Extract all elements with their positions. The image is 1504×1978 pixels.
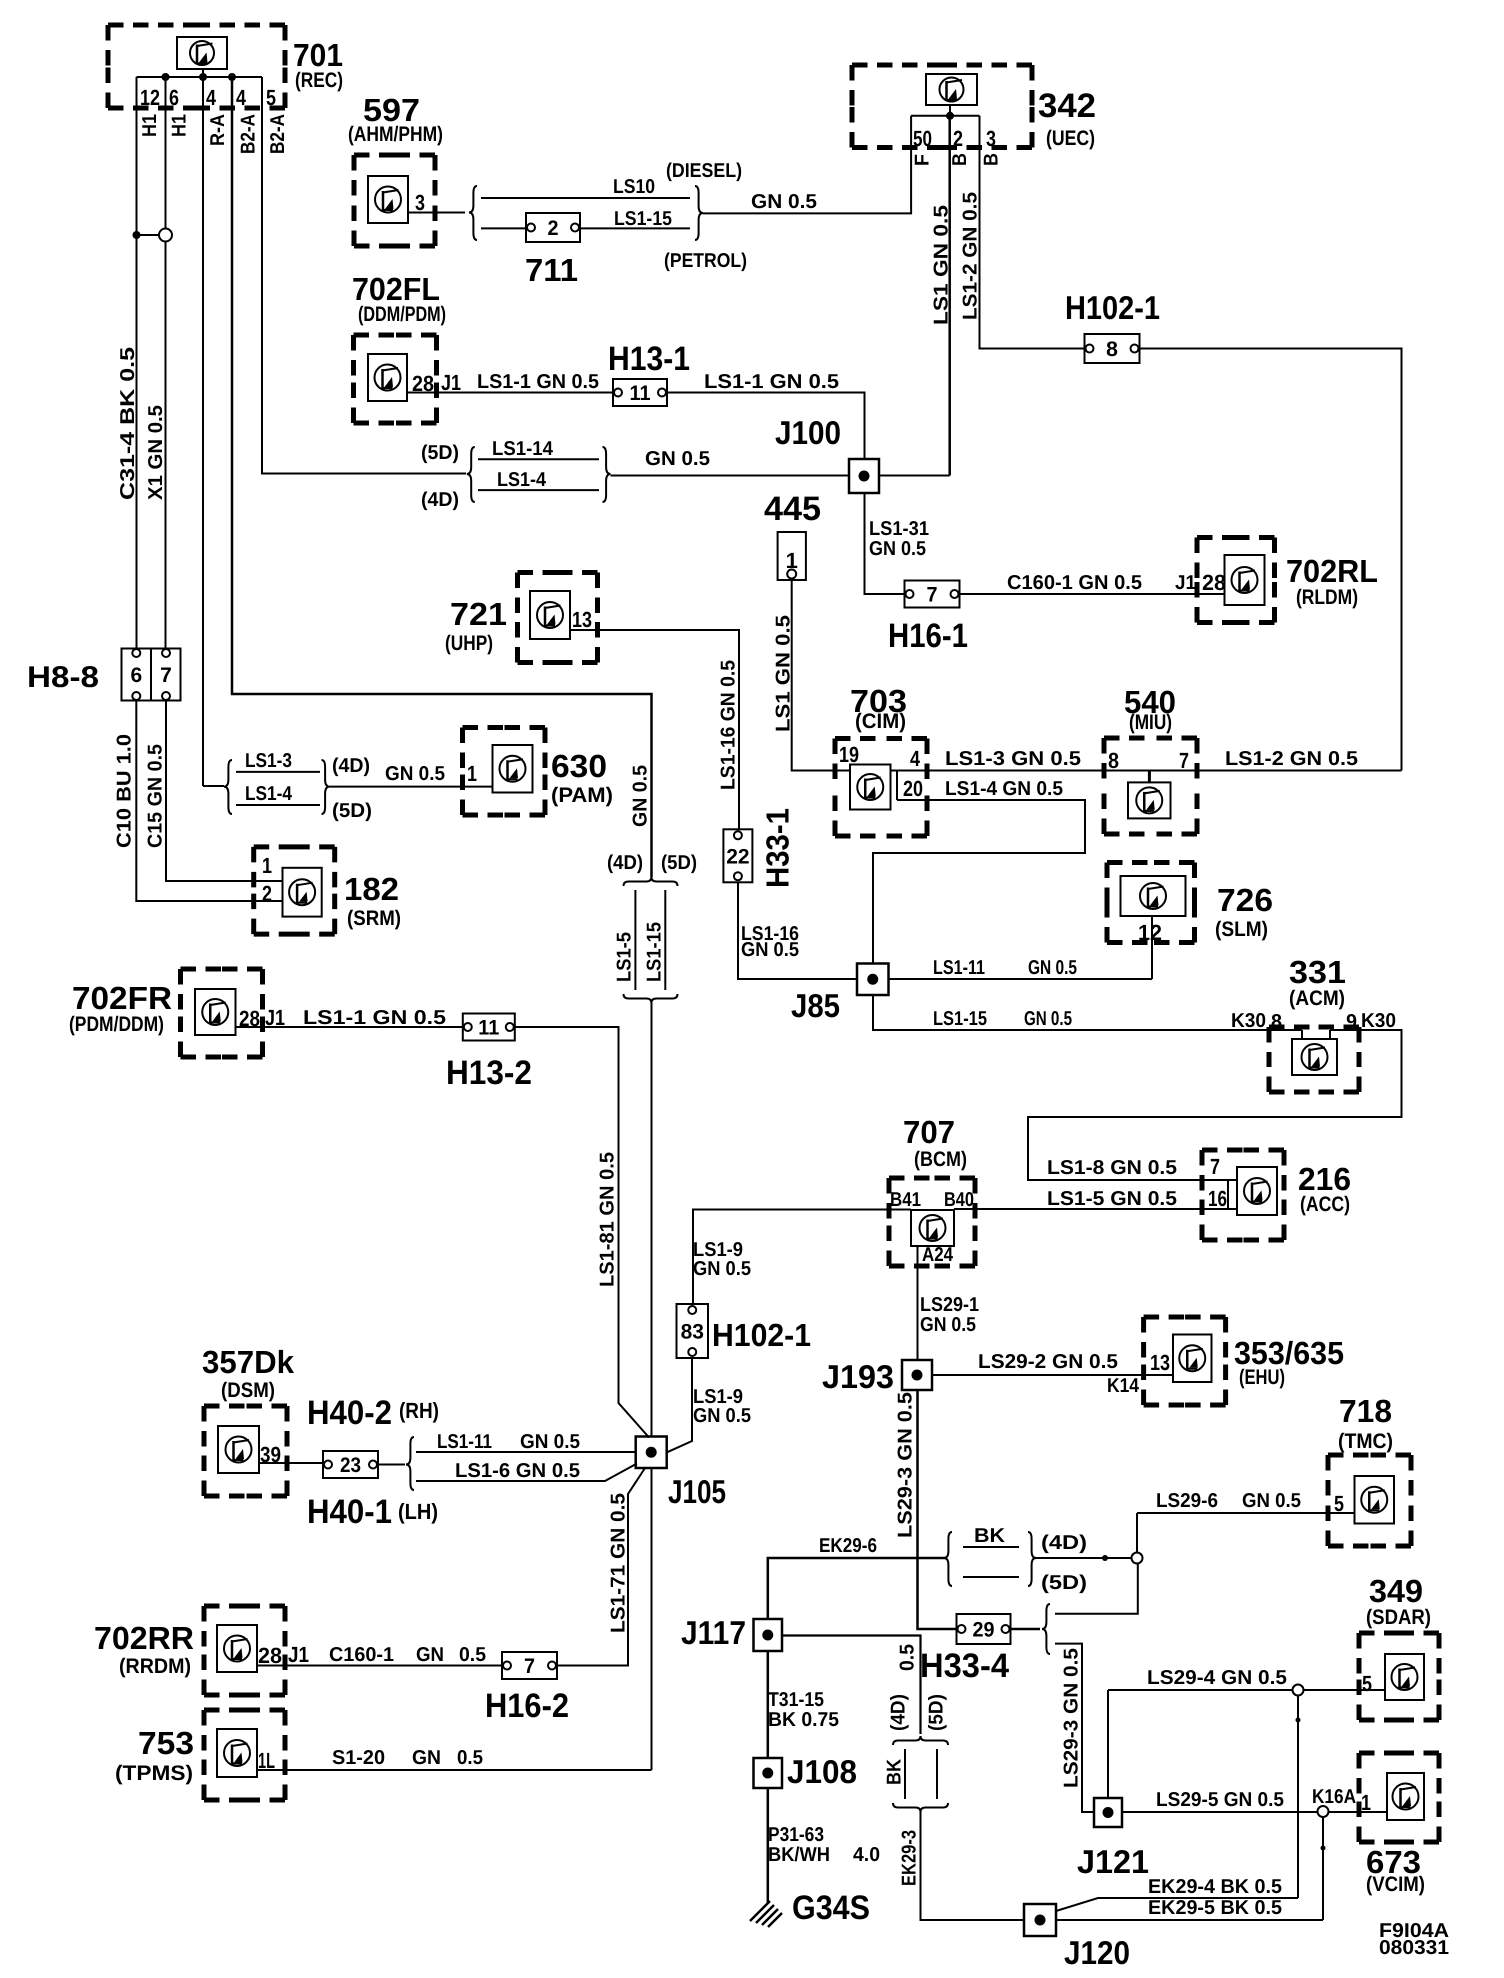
wire LS1-14 xyxy=(478,458,599,460)
pin 9 (ACM) xyxy=(1346,1011,1357,1033)
wire LS1-3 xyxy=(897,770,1104,772)
label H16-2 xyxy=(485,1687,569,1725)
pin 50 xyxy=(913,126,932,151)
svg-text:LS1-4: LS1-4 xyxy=(497,469,547,491)
brace BK right xyxy=(1028,1532,1036,1586)
label (SRM) xyxy=(347,907,401,930)
pin 28 (702FR) xyxy=(239,1006,260,1031)
svg-text:GN 0.5: GN 0.5 xyxy=(385,763,445,785)
pin 2 xyxy=(262,881,272,906)
label LS1-81 GN 0.5 xyxy=(597,1152,619,1287)
svg-text:EK29-6: EK29-6 xyxy=(819,1535,877,1557)
svg-text:H13-2: H13-2 xyxy=(446,1054,532,1092)
label 0.5 vert h334 xyxy=(897,1644,919,1671)
svg-text:(5D): (5D) xyxy=(1041,1572,1087,1594)
label (ACM) xyxy=(1289,987,1345,1010)
wire B41 xyxy=(693,1210,911,1305)
svg-text:K30: K30 xyxy=(1231,1010,1266,1032)
wire GN to 342 pin50 xyxy=(703,116,911,214)
svg-text:F: F xyxy=(912,154,934,166)
label BK/WH xyxy=(768,1844,830,1866)
svg-text:LS1-6 GN 0.5: LS1-6 GN 0.5 xyxy=(455,1460,580,1482)
wire brace to J100 xyxy=(611,475,850,477)
svg-text:C15 GN 0.5: C15 GN 0.5 xyxy=(145,744,167,848)
wire 342 inner stub xyxy=(949,106,951,116)
label J121 xyxy=(1077,1843,1149,1880)
label (5D) 651 xyxy=(661,852,697,874)
pin 13 xyxy=(572,607,592,632)
svg-text:702FL: 702FL xyxy=(352,271,440,307)
wire P31-63 xyxy=(767,1788,770,1903)
wire LS1-15 b xyxy=(580,227,690,229)
svg-text:GN 0.5: GN 0.5 xyxy=(920,1314,976,1336)
svg-text:K14: K14 xyxy=(1107,1375,1140,1397)
svg-text:GN 0.5: GN 0.5 xyxy=(751,191,817,213)
svg-text:LS1 GN 0.5: LS1 GN 0.5 xyxy=(773,615,795,732)
component 707 symbol xyxy=(911,1210,954,1246)
label LS1-2 GN 0.5 xyxy=(960,192,982,320)
svg-text:LS1-5 GN 0.5: LS1-5 GN 0.5 xyxy=(1047,1188,1177,1210)
label LS1-8 GN 0.5 xyxy=(1047,1157,1177,1179)
svg-text:H8-8: H8-8 xyxy=(27,661,99,694)
label B pin2 xyxy=(949,153,971,166)
label (4D) bk xyxy=(1041,1532,1087,1554)
svg-text:080331: 080331 xyxy=(1379,1937,1449,1959)
svg-text:445: 445 xyxy=(764,490,821,528)
svg-text:4: 4 xyxy=(910,746,921,771)
svg-text:B41: B41 xyxy=(890,1189,921,1211)
label B2-A pin4 xyxy=(237,114,259,154)
svg-text:(AHM/PHM): (AHM/PHM) xyxy=(348,123,443,146)
brace 630 left xyxy=(224,760,232,814)
brace LS1-14 right xyxy=(603,447,611,502)
label EK29-5 BK 0.5 xyxy=(1148,1897,1282,1919)
svg-text:LS1-71 GN 0.5: LS1-71 GN 0.5 xyxy=(608,1493,630,1633)
wire LS1-81 xyxy=(515,1027,649,1438)
pin 39 xyxy=(260,1442,281,1467)
svg-text:0.5: 0.5 xyxy=(459,1644,486,1666)
svg-text:28: 28 xyxy=(258,1643,282,1668)
brace diesel-petrol left xyxy=(469,186,477,240)
component 721 symbol xyxy=(530,591,570,639)
label 630 xyxy=(551,748,607,784)
label LS1-16 xyxy=(741,923,799,945)
svg-text:LS1-1 GN 0.5: LS1-1 GN 0.5 xyxy=(477,371,599,393)
svg-text:1: 1 xyxy=(467,761,477,786)
svg-text:726: 726 xyxy=(1217,882,1273,918)
label (VCIM) xyxy=(1366,1873,1425,1896)
svg-text:GN 0.5: GN 0.5 xyxy=(693,1258,751,1280)
label LS29-1 xyxy=(920,1294,979,1316)
label LS1-4 (630) xyxy=(245,783,293,805)
component 702RL symbol xyxy=(1225,555,1265,605)
component 702RL (RLDM) box xyxy=(1197,538,1275,623)
label H33-1 xyxy=(760,808,796,888)
svg-text:BK: BK xyxy=(974,1525,1006,1547)
svg-text:LS10: LS10 xyxy=(613,176,655,198)
svg-text:(5D): (5D) xyxy=(421,442,459,464)
pin 3 xyxy=(986,126,996,151)
svg-text:B: B xyxy=(949,153,971,166)
svg-text:BK: BK xyxy=(884,1759,906,1785)
svg-text:6: 6 xyxy=(130,664,142,687)
label H33-4 xyxy=(920,1647,1009,1685)
label H16-1 xyxy=(888,617,968,655)
svg-text:LS1-2 GN 0.5: LS1-2 GN 0.5 xyxy=(960,192,982,320)
wire C160-1 (RR) xyxy=(257,1665,502,1667)
svg-text:702FR: 702FR xyxy=(72,980,172,1016)
wire 216 pin16 stub xyxy=(1228,1180,1238,1209)
brace split bottom xyxy=(624,994,678,1003)
wire H102-1 to J105 xyxy=(667,1358,692,1452)
svg-text:(LH): (LH) xyxy=(398,1499,438,1524)
wire EK29-4 riser xyxy=(1297,1696,1299,1899)
brace LS1-14 left xyxy=(467,447,475,502)
svg-text:LS29-5 GN 0.5: LS29-5 GN 0.5 xyxy=(1156,1789,1284,1811)
label (4D) vert xyxy=(888,1694,910,1731)
svg-text:(BCM): (BCM) xyxy=(914,1148,967,1171)
svg-text:(VCIM): (VCIM) xyxy=(1366,1873,1425,1896)
label (DIESEL) xyxy=(666,160,742,182)
svg-text:331: 331 xyxy=(1289,954,1346,990)
svg-text:J117: J117 xyxy=(681,1614,746,1651)
label 702RR xyxy=(94,1620,194,1656)
svg-text:LS1-15: LS1-15 xyxy=(614,208,672,230)
svg-text:(CIM): (CIM) xyxy=(855,710,906,733)
wire 726 pin12 riser xyxy=(1151,916,1153,979)
component 701 (REC) box xyxy=(108,25,285,108)
label (DSM) xyxy=(221,1379,275,1402)
component 349 (SDAR) box xyxy=(1359,1633,1439,1720)
component 331 symbol xyxy=(1292,1039,1337,1075)
wire T31-15 xyxy=(767,1651,770,1758)
component 702RR (RRDM) box xyxy=(204,1606,285,1695)
svg-text:216: 216 xyxy=(1298,1161,1351,1197)
pin 13 (EHU) xyxy=(1150,1350,1170,1375)
wire LS1-11 xyxy=(889,978,1152,980)
label GN 0.5 (296) xyxy=(1242,1490,1301,1512)
connector H13-1 xyxy=(613,379,667,406)
pin 8 xyxy=(1108,748,1119,773)
connector H102-1 mid xyxy=(677,1304,709,1358)
svg-text:12: 12 xyxy=(1138,920,1162,945)
wire GN to 630 xyxy=(330,786,493,788)
label LS1-11 xyxy=(933,957,985,979)
wire LS1-4 xyxy=(478,489,599,491)
component 349 symbol xyxy=(1385,1654,1424,1700)
label (TPMS) xyxy=(115,1762,193,1785)
label (BCM) xyxy=(914,1148,967,1171)
svg-text:LS1-3: LS1-3 xyxy=(245,750,292,772)
label (SLM) xyxy=(1215,918,1268,941)
label F9I04A xyxy=(1379,1920,1449,1942)
svg-text:LS1-2 GN 0.5: LS1-2 GN 0.5 xyxy=(1225,748,1358,770)
label (AHM/PHM) xyxy=(348,123,443,146)
node splice dot xyxy=(133,231,141,239)
label 707 xyxy=(903,1114,955,1150)
svg-text:(UEC): (UEC) xyxy=(1046,127,1095,150)
label T31-15 xyxy=(768,1689,824,1711)
component 726 symbol xyxy=(1121,876,1186,916)
wire LS1-2 to right xyxy=(1197,770,1402,772)
label LS1-15 xyxy=(614,208,672,230)
svg-text:19: 19 xyxy=(839,742,859,767)
svg-text:7: 7 xyxy=(1179,748,1189,773)
pin 5 (718) xyxy=(1334,1491,1344,1516)
connector 445 xyxy=(778,532,806,580)
label H102-1 mid xyxy=(712,1317,811,1353)
label GN 0.5 below83 xyxy=(693,1405,751,1427)
label H13-2 xyxy=(446,1054,532,1092)
svg-text:(UHP): (UHP) xyxy=(445,632,493,655)
svg-text:702RL: 702RL xyxy=(1286,553,1378,589)
wire 701 symbol stub xyxy=(202,69,204,77)
component 182 symbol xyxy=(283,868,322,917)
wire LS1-6 xyxy=(416,1464,637,1482)
label LS1-11 (h40) xyxy=(437,1431,492,1453)
wire C15 down xyxy=(166,701,283,882)
label 753 xyxy=(138,1725,194,1761)
component 726 (SLM) box xyxy=(1107,863,1195,943)
svg-text:J85: J85 xyxy=(791,987,840,1024)
svg-text:BK 0.75: BK 0.75 xyxy=(768,1709,839,1731)
svg-text:7: 7 xyxy=(524,1655,535,1678)
wire LS1-1 left xyxy=(407,392,613,394)
label LS1 GN 0.5 xyxy=(931,205,953,325)
brace H33-4 split xyxy=(1042,1604,1050,1654)
label LS1-2 GN 0.5 (wire) xyxy=(1225,748,1358,770)
label 216 xyxy=(1298,1161,1351,1197)
svg-text:753: 753 xyxy=(138,1725,194,1761)
svg-text:K30: K30 xyxy=(1361,1010,1396,1032)
wire BK 4D xyxy=(963,1546,1019,1548)
label 726 xyxy=(1217,882,1273,918)
label GN (RR) xyxy=(416,1644,444,1666)
label GN 0.5 xyxy=(645,448,710,470)
wire J117 right xyxy=(782,1636,921,1735)
junction J100 xyxy=(849,459,879,493)
svg-text:711: 711 xyxy=(525,252,578,288)
wire 23 to brace xyxy=(378,1464,405,1466)
svg-text:GN 0.5: GN 0.5 xyxy=(630,765,652,827)
component 630 symbol xyxy=(493,745,533,793)
component 701 symbol xyxy=(177,37,227,69)
label LS1-6 GN 0.5 xyxy=(455,1460,580,1482)
ground G34S xyxy=(750,1901,782,1927)
wire J100 to 342 xyxy=(879,475,950,477)
svg-text:LS1-14: LS1-14 xyxy=(492,438,554,460)
svg-text:630: 630 xyxy=(551,748,607,784)
pin 19 xyxy=(839,742,859,767)
svg-text:13: 13 xyxy=(572,607,592,632)
svg-text:GN: GN xyxy=(416,1644,444,1666)
junction J120 xyxy=(1024,1904,1056,1936)
svg-text:(RRDM): (RRDM) xyxy=(119,1655,191,1678)
label S1-20 xyxy=(332,1747,385,1769)
pin 7 (216) xyxy=(1210,1154,1220,1179)
label (4D) xyxy=(421,489,459,511)
wire LS29-5 xyxy=(1122,1811,1318,1813)
svg-text:J120: J120 xyxy=(1064,1934,1130,1971)
pin B40 xyxy=(944,1189,974,1211)
label GN 0.5 (h40a) xyxy=(520,1431,580,1453)
component 597 (AHM/PHM) box xyxy=(354,155,435,246)
label (RH) xyxy=(399,1398,439,1423)
wire LS1-15 seg xyxy=(664,890,666,990)
label 718 xyxy=(1339,1393,1392,1429)
component 753 symbol xyxy=(217,1729,257,1777)
svg-text:H13-1: H13-1 xyxy=(608,340,690,378)
svg-text:C10 BU 1.0: C10 BU 1.0 xyxy=(114,734,136,848)
svg-text:X1 GN 0.5: X1 GN 0.5 xyxy=(145,405,167,500)
label F xyxy=(912,154,934,166)
brace diesel-petrol right xyxy=(695,186,703,240)
label EK29-4 BK 0.5 xyxy=(1148,1876,1282,1898)
label (EHU) xyxy=(1239,1366,1285,1389)
component 702FR symbol xyxy=(195,989,236,1035)
label GN 0.5 (291) xyxy=(920,1314,976,1336)
wire LS1-1 right xyxy=(667,393,865,460)
pin 7 xyxy=(1179,748,1189,773)
svg-text:H40-2: H40-2 xyxy=(307,1394,392,1432)
label LS1-9 below xyxy=(693,1386,743,1408)
connector 23 xyxy=(323,1451,378,1478)
component 540 (MIU) box xyxy=(1104,738,1197,834)
wire H1-6 down b xyxy=(165,242,167,649)
svg-text:T31-15: T31-15 xyxy=(768,1689,824,1711)
svg-text:(DIESEL): (DIESEL) xyxy=(666,160,742,182)
svg-text:GN 0.5: GN 0.5 xyxy=(1028,957,1077,979)
pin 12 xyxy=(140,85,160,110)
wire B2-A-4 down xyxy=(232,77,652,877)
component 182 (SRM) box xyxy=(254,847,335,934)
wire 701 pin bus xyxy=(137,76,263,78)
svg-text:BK/WH: BK/WH xyxy=(768,1844,830,1866)
wire LS1-4 (630) xyxy=(236,804,320,806)
label (5D) bk xyxy=(1041,1572,1087,1594)
wire H33-4 out xyxy=(1011,1628,1041,1631)
junction J193 xyxy=(902,1360,932,1390)
label LS1-1 GN 0.5 right xyxy=(704,371,839,393)
svg-text:0.5: 0.5 xyxy=(897,1644,919,1671)
label B pin3 xyxy=(981,153,1003,166)
svg-text:16: 16 xyxy=(1208,1186,1227,1211)
component 702RR symbol xyxy=(217,1625,257,1672)
svg-text:2: 2 xyxy=(548,217,559,240)
svg-text:8: 8 xyxy=(1106,338,1118,361)
component 540 symbol xyxy=(1128,782,1171,818)
label (UHP) xyxy=(445,632,493,655)
label (PETROL) xyxy=(664,250,747,272)
svg-text:J193: J193 xyxy=(822,1358,894,1395)
wire 721 pin13 xyxy=(570,630,739,829)
wire LS1-3 (630) xyxy=(236,771,320,773)
svg-text:LS1-11: LS1-11 xyxy=(933,957,985,979)
wire ACM pin9 tick xyxy=(1329,1030,1331,1040)
label BK vert xyxy=(884,1759,906,1785)
label J120 xyxy=(1064,1934,1130,1971)
wire MIU stub xyxy=(1148,771,1151,783)
svg-text:5: 5 xyxy=(1362,1671,1372,1696)
label B2-A pin5 xyxy=(267,114,289,154)
wire LS29-4 to 349 xyxy=(1304,1689,1386,1691)
svg-text:707: 707 xyxy=(903,1114,955,1150)
svg-text:LS29-1: LS29-1 xyxy=(920,1294,979,1316)
label H1 pin12 xyxy=(139,114,161,137)
label (5D) 630 xyxy=(332,800,372,822)
svg-text:182: 182 xyxy=(344,871,399,907)
svg-text:(RLDM): (RLDM) xyxy=(1296,586,1358,609)
svg-text:H16-1: H16-1 xyxy=(888,617,968,655)
connector H8-8 xyxy=(122,649,181,701)
pin 28 (702RR) xyxy=(258,1643,282,1668)
pin 4 xyxy=(236,85,247,110)
svg-text:4.0: 4.0 xyxy=(853,1844,880,1866)
svg-text:C160-1 GN 0.5: C160-1 GN 0.5 xyxy=(1007,572,1142,594)
svg-text:(SLM): (SLM) xyxy=(1215,918,1268,941)
label LS1-14 xyxy=(492,438,554,460)
component 703 symbol xyxy=(850,765,891,810)
wire LS1-5 seg xyxy=(634,890,636,990)
wire LS1-15 a xyxy=(481,227,526,229)
wire ACM pin8 tick xyxy=(1301,1030,1303,1040)
svg-text:3: 3 xyxy=(415,190,425,215)
label (LH) xyxy=(398,1499,438,1524)
label J105 xyxy=(668,1473,726,1510)
label GN 0.5 (630) xyxy=(385,763,445,785)
svg-text:B2-A: B2-A xyxy=(237,114,259,154)
svg-text:(ACM): (ACM) xyxy=(1289,987,1345,1010)
wire LS1-1 (702FR) xyxy=(236,1026,463,1028)
label 540 xyxy=(1124,684,1176,720)
svg-text:C160-1: C160-1 xyxy=(329,1644,394,1666)
label C160-1 (RR) xyxy=(329,1644,394,1666)
label (RLDM) xyxy=(1296,586,1358,609)
svg-text:718: 718 xyxy=(1339,1393,1392,1429)
brace H40 xyxy=(406,1437,414,1490)
component 702FL (DDM/PDM) box xyxy=(354,335,437,423)
node variant dot ek4 xyxy=(1296,1718,1301,1723)
svg-text:13: 13 xyxy=(1150,1350,1170,1375)
svg-text:(EHU): (EHU) xyxy=(1239,1366,1285,1389)
svg-text:LS1-16 GN 0.5: LS1-16 GN 0.5 xyxy=(718,660,740,790)
brace EK29-3 bottom xyxy=(893,1803,948,1812)
wire H1-12 down xyxy=(136,77,138,649)
svg-text:H1: H1 xyxy=(169,114,191,137)
label LS29-6 xyxy=(1156,1490,1218,1512)
label GN 0.5 (16) xyxy=(741,939,799,961)
svg-text:(REC): (REC) xyxy=(295,69,343,92)
svg-text:0.5: 0.5 xyxy=(457,1747,483,1769)
svg-text:3: 3 xyxy=(986,126,996,151)
node variant dot ek5 xyxy=(1321,1846,1326,1851)
component 703 (CIM) box xyxy=(835,739,927,837)
label (4D) 630 xyxy=(332,755,370,777)
label (5D) vert xyxy=(926,1694,948,1731)
svg-text:H1: H1 xyxy=(139,114,161,137)
svg-text:H40-1: H40-1 xyxy=(307,1493,392,1531)
svg-text:J100: J100 xyxy=(775,414,841,451)
label 711 xyxy=(525,252,578,288)
wire K30 route xyxy=(1028,1030,1402,1180)
svg-text:83: 83 xyxy=(681,1321,704,1344)
wire CIM pin4 stub xyxy=(891,771,898,801)
svg-text:1: 1 xyxy=(262,853,272,878)
svg-text:LS1-15: LS1-15 xyxy=(644,922,666,982)
svg-text:H102-1: H102-1 xyxy=(1065,289,1160,326)
svg-text:G34S: G34S xyxy=(792,1889,870,1927)
wire LS1 GN down xyxy=(948,116,951,476)
